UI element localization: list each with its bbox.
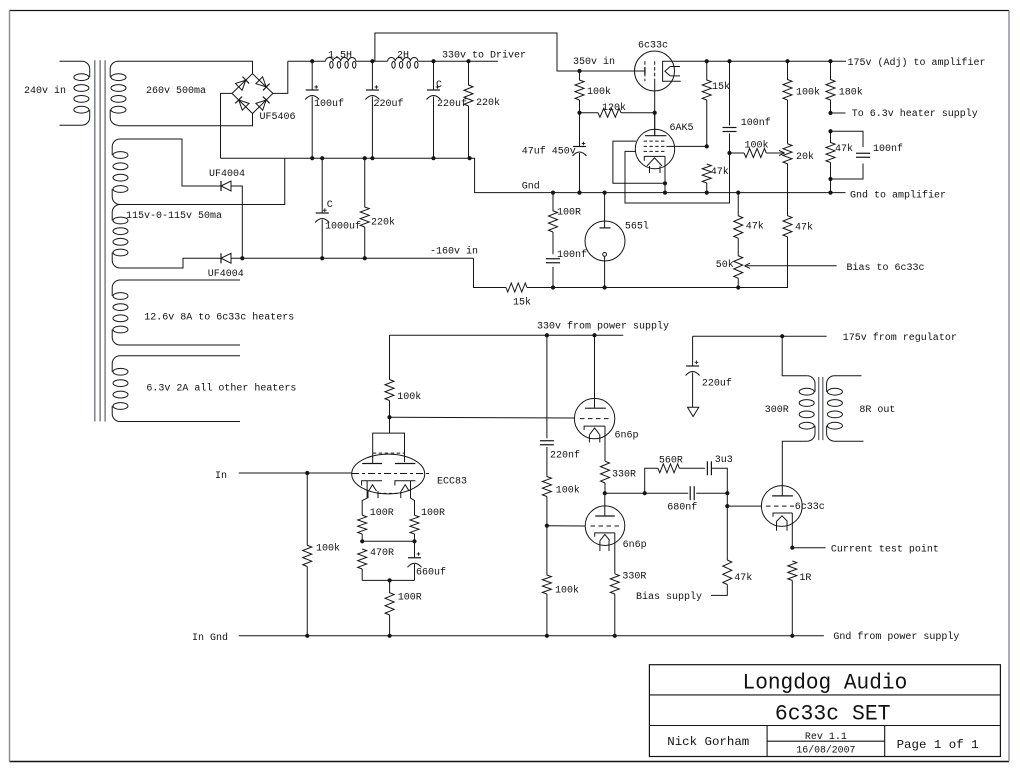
capacitor C6 100nf [729,61,731,125]
svg-text:Longdog Audio: Longdog Audio [743,671,908,696]
svg-text:350v in: 350v in [573,56,615,68]
wire V3 cathode down [664,156,666,192]
resistor R16 47k bias right [783,164,792,237]
tube V4 grid dash-dot [352,473,431,475]
svg-text:100k: 100k [556,485,580,497]
tube V3 grid3 dashed [644,150,667,152]
svg-text:-160v in: -160v in [430,245,478,257]
junction ECC83 plate node [387,415,391,419]
wire 260v top to bridge [118,61,253,73]
svg-text:220k: 220k [476,97,500,109]
junction 47k-100nf top [828,129,832,133]
wire current test point [792,547,825,549]
svg-text:680nf: 680nf [667,502,697,514]
wire ground rail 0v [221,157,470,159]
tube V2 cathode circle [603,253,607,257]
wire cathode network bottom [362,579,414,581]
transformer T2 output core [818,377,820,440]
junction 330v 220nf line [545,333,549,337]
wire V2 cathode to -160 rail [604,256,606,287]
transformer T1 core [94,60,96,421]
svg-text:Bias to 6c33c: Bias to 6c33c [847,262,925,274]
capacitor C13 220uf decoupling [692,336,694,366]
resistor R6 15k [702,61,711,100]
tube V5 plate bar [585,407,606,409]
wire -160 to 47k corner [738,237,787,288]
junction rail 15k [705,59,709,63]
transformer T1 primary winding 240v [82,61,90,77]
junction 560R branch [643,491,647,495]
wire ground rail jog to Gnd [470,158,846,192]
bridge diode D5 lower-left [235,97,249,111]
svg-text:UF4004: UF4004 [208,269,244,280]
svg-text:300R: 300R [765,405,789,416]
capacitor C12 3u3 [706,461,708,475]
junction gnd 220uf [370,156,374,160]
junction B+ 100uf [310,59,314,63]
svg-text:2H: 2H [397,51,409,62]
tube V1 6c33c regulator envelope [635,51,675,91]
junction gnd 100R [551,191,555,195]
wire V6 plate from node [604,493,606,516]
svg-text:8R out: 8R out [859,405,895,416]
junction grid feed [725,504,729,508]
resistor R3 15k [506,283,527,292]
resistor R24 100k lower [542,526,551,594]
svg-text:In: In [215,471,227,482]
wire 6.3v bottom stub [120,421,240,423]
wire cathode2 to 100R [411,481,415,515]
wire 115v center tap to ground rail [120,158,285,204]
tube V4 ECC83 envelope [352,454,425,494]
tube V3 grid1 dashed [644,140,667,142]
tube V1 grid2 dashed [654,61,656,81]
svg-text:C: C [436,80,442,91]
svg-text:100uf: 100uf [314,98,344,110]
svg-text:6.3v 2A all other heaters: 6.3v 2A all other heaters [146,383,296,395]
tube V4 cathode right [395,481,416,486]
junction 47k bottom [828,177,832,181]
svg-text:15k: 15k [712,81,730,93]
wire 260v bottom to bridge AC2 [118,114,253,126]
junction gnd 220k bleeder [363,156,367,160]
wire 100k to 20k wiper arrow [766,152,782,154]
svg-text:3u3: 3u3 [715,455,733,466]
tube V6 cathode [595,533,615,537]
svg-text:100R: 100R [421,508,445,519]
junction -160 1000uf [320,256,324,260]
wire bias supply entry [711,585,727,596]
transformer T1 secondary 6.3v winding [112,356,120,372]
junction gnd 180k chain [828,191,832,195]
transformer T2 secondary 8R [827,376,835,392]
wire OPT secondary top stub [834,375,861,377]
svg-text:Current test point: Current test point [831,543,939,555]
resistor R18 100k grid [303,473,312,567]
svg-text:330v to Driver: 330v to Driver [442,50,526,62]
capacitor C9 660uf [414,541,416,557]
bridge diode D6 lower-right [256,97,270,111]
svg-text:100nf: 100nf [557,249,587,261]
resistor R8 100k [744,149,766,158]
capacitor C10 220nf [540,440,554,442]
wire 560R branch [645,468,658,493]
junction gnd 1R [790,634,794,638]
wire OPT secondary bottom stub [834,440,863,442]
wire 50k wiper to bias out [747,265,837,267]
junction rail 100k [785,59,789,63]
wire V5 plate from 330v rail [594,335,596,408]
svg-text:6c33c: 6c33c [795,502,825,513]
tube V3 grid2 dashed [644,145,667,147]
resistor R4 100k [575,71,584,100]
svg-text:Gnd from power supply: Gnd from power supply [833,631,959,643]
wire bridge positive to B+ rail [273,61,288,93]
resistor R19 100R left [358,515,367,534]
svg-text:1.5H: 1.5H [328,51,352,62]
svg-text:660uf: 660uf [416,567,446,579]
diode D1 UF4004 upper [220,181,222,191]
resistor R2 220k [360,158,369,227]
resistor R29 1R [788,561,797,581]
svg-text:330R: 330R [612,470,636,481]
svg-text:120k: 120k [602,102,626,114]
tube V4 cathode left [362,481,383,486]
capacitor C3 220uf (C) [433,61,435,90]
junction 100R-660uf [412,539,416,543]
junction 100k-120k [577,111,581,115]
tube V6 6n6p lower envelope [585,506,625,546]
tube V4 heater right [401,485,409,491]
svg-text:220nf: 220nf [550,450,580,462]
junction -160 100nf [551,285,555,289]
resistor R14 47k bias upper [734,193,743,239]
junction 6.3v heater tap [828,111,832,115]
wire V5 cathode down [604,426,606,461]
svg-text:Page 1 of 1: Page 1 of 1 [897,738,979,752]
capacitor C11 680nf [688,486,696,500]
bridge diode D3 upper-left [235,77,249,91]
wire to lower 6n6p grid [547,525,585,527]
svg-text:50k: 50k [716,259,734,271]
tube V5 6n6p upper envelope [574,398,614,438]
junction 175v OPT [780,334,784,338]
transformer T2 primary 300R [807,376,815,392]
wire cathode1 to 100R [362,481,367,515]
inductor L2 2H [388,58,418,62]
resistor R20 100R right [410,515,419,534]
junction gnd 330R [613,634,617,638]
svg-text:180k: 180k [839,87,863,99]
tube V1 grid bar [644,67,646,74]
capacitor C2 220uf [371,61,373,90]
wire In Gnd rail [239,635,824,637]
wire ECC83 plate to 6n6p grid [390,416,575,419]
transformer T1 secondary 115v upper winding [112,139,120,155]
junction 330v 6n6p plate [592,333,596,337]
svg-text:175v (Adj) to amplifier: 175v (Adj) to amplifier [848,57,986,69]
svg-text:47k: 47k [795,221,813,233]
svg-text:Gnd to amplifier: Gnd to amplifier [850,190,946,202]
svg-text:6AK5: 6AK5 [670,123,694,134]
junction 100nf-100k [727,151,731,155]
resistor R12 47k [826,131,835,162]
wire cathode resistor junction [362,540,414,542]
junction 330R-6n6p [603,491,607,495]
svg-text:100nf: 100nf [873,143,903,155]
wire OPT primary top [782,336,807,376]
resistor R9 100k [783,61,792,100]
resistor R22 100R [385,580,394,615]
junction gnd 100R [388,634,392,638]
tube V6 grid dashed [591,525,621,527]
junction 470R-100R [388,578,392,582]
potentiometer R15 50k [734,238,743,278]
wire 330v from power supply rail [390,334,624,336]
wire 47k to gnd rail [830,179,832,193]
junction -160 diodes [240,256,244,260]
resistor R26 560R [658,464,679,473]
junction 15k-47k g2 [705,144,709,148]
wire bridge negative to ground rail [221,93,233,158]
tube V6 heater [600,534,610,540]
wire OPT primary bottom to plate [782,441,807,496]
svg-text:Gnd: Gnd [522,181,540,193]
junction 100R-470R [360,539,364,543]
wire primary bottom [60,124,82,126]
wire to 6.3v heater supply stub [831,112,846,114]
svg-text:100nf: 100nf [741,117,771,129]
svg-text:260v 500ma: 260v 500ma [146,86,206,97]
tube V1 plate bracket [663,61,681,81]
svg-text:47k: 47k [711,166,729,178]
junction rail 180k [828,59,832,63]
svg-text:115v-0-115v 50ma: 115v-0-115v 50ma [126,211,222,222]
svg-text:565l: 565l [625,220,649,232]
tube V3 plate [645,135,666,137]
tube V7 plate bar [772,495,793,497]
junction gnd 100uf [310,156,314,160]
svg-text:470R: 470R [370,548,394,559]
title block box [649,665,1000,757]
tube V4 anode box dashed [373,452,405,454]
svg-text:47k: 47k [835,143,853,155]
wire D1 anode to -160 node [231,186,242,258]
tube V3 6AK5 envelope [635,129,674,168]
svg-text:12.6v 8A to 6c33c heaters: 12.6v 8A to 6c33c heaters [144,312,294,324]
svg-text:1R: 1R [799,573,811,584]
svg-text:220uf: 220uf [437,98,467,110]
junction gnd C220uf [431,156,435,160]
junction gnd 1000uf [320,156,324,160]
wire 350v feeder [375,33,645,71]
svg-text:100k: 100k [397,391,421,403]
svg-text:100k: 100k [316,542,340,554]
potentiometer R10 20k [783,144,792,164]
wire V3 g2 to 15k-47k node [666,145,706,147]
svg-text:560R: 560R [659,456,683,467]
svg-text:220uf: 220uf [374,98,404,110]
tube V3 heater [647,158,662,166]
resistor R25 330R upper [601,461,610,483]
junction gnd 100k [545,634,549,638]
svg-text:100k: 100k [745,140,769,152]
junction 680nf-3u3 [725,491,729,495]
tube V4 heater left [369,485,377,491]
wire grid network to 6c33c [727,493,761,506]
wire interstage node [605,492,728,494]
wire 6.3v top stub [120,355,240,357]
junction L1-L2 node [370,59,374,63]
svg-text:330v from power supply: 330v from power supply [537,320,669,332]
svg-text:C: C [327,200,333,211]
tube V4 heater dashed link [378,492,401,494]
svg-text:1000uf: 1000uf [325,221,361,233]
tube V7 6c33c output envelope [761,486,802,527]
tube V4 anode bars [362,463,382,465]
wire 175v from regulator [693,335,827,337]
junction -160 50k [736,285,740,289]
junction In 100k [305,471,309,475]
svg-text:16/08/2007: 16/08/2007 [796,745,855,757]
wire 12.6v top stub [120,279,240,281]
junction gnd 5651 [603,191,607,195]
tube V5 grid dashed [580,418,610,420]
svg-text:100R: 100R [557,208,581,219]
bridge diode D4 upper-right [256,77,270,91]
tube V5 cathode [584,426,605,430]
junction current test point [790,546,794,550]
resistor R13 100R [549,193,558,232]
wire -160 rail step down [474,258,507,287]
svg-text:220k: 220k [371,217,395,229]
svg-text:100k: 100k [796,87,820,99]
svg-text:To 6.3v heater supply: To 6.3v heater supply [852,108,978,120]
svg-text:ECC83: ECC83 [437,477,467,488]
svg-text:20k: 20k [796,151,814,163]
resistor R7 47k [702,164,711,183]
wire -160v in rail [231,257,474,259]
capacitor C8 100nf [552,232,554,254]
page border frame [10,10,1010,12]
wire V3 g3 to reference node [625,151,730,203]
transformer T1 secondary 260v winding [110,61,118,77]
junction gnd 6AK5 cathode [663,191,667,195]
svg-text:6c33c: 6c33c [638,41,668,52]
svg-text:Nick Gorham: Nick Gorham [667,735,749,749]
wire V6 cathode down [614,533,616,574]
junction -160 5651 [603,285,607,289]
svg-text:100R: 100R [398,593,422,604]
svg-text:100k: 100k [555,585,579,597]
wire 115v bottom to diode D2 [120,258,221,268]
junction rail 100nf [727,59,731,63]
svg-text:220uf: 220uf [702,378,732,390]
tube V2 anode [604,193,606,228]
resistor R23 100k [542,447,551,497]
wire V3 g1 to ground [613,141,665,183]
tube V7 grid dashed [766,505,794,507]
svg-text:In Gnd: In Gnd [192,632,228,644]
ground arrow [688,407,699,416]
svg-text:100k: 100k [587,86,611,98]
svg-text:100R: 100R [370,508,394,519]
tube V2 5651 envelope [585,221,625,261]
tube V7 heater [777,516,788,522]
resistor R1 220k bleeder [464,61,473,106]
svg-text:UF4004: UF4004 [209,169,245,180]
svg-text:175v from regulator: 175v from regulator [843,332,957,344]
diode D2 UF4004 lower [220,253,222,263]
svg-text:Rev 1.1: Rev 1.1 [805,732,847,743]
tube V1 grid dashed [644,61,646,81]
svg-text:330R: 330R [622,572,646,583]
wire primary top [60,60,82,62]
svg-text:6n6p: 6n6p [615,431,639,442]
junction gnd 220k [468,156,472,160]
capacitor C5 47uf 450v [579,113,581,147]
transformer T1 secondary 12.6v winding [112,280,120,296]
junction gnd 100k in [305,634,309,638]
svg-text:47k: 47k [746,220,764,232]
svg-text:15k: 15k [513,297,531,309]
svg-text:6n6p: 6n6p [623,540,647,551]
inductor L1 1.5H [326,58,356,62]
wire 3u3 to junction [711,468,727,493]
svg-text:47k: 47k [734,572,752,584]
resistor R5 120k [598,108,621,117]
tube V3 cathode [644,156,665,160]
svg-text:6c33c SET: 6c33c SET [775,702,891,727]
transformer T1 secondary 115v lower winding [112,205,120,221]
junction 220k node [466,59,470,63]
resistor R27 330R lower [610,574,619,594]
junction -160 220k [363,256,367,260]
tube V6 plate bar [595,515,615,517]
wire regulator output rail 175v [674,60,846,62]
capacitor C4 1000uf [321,158,323,213]
resistor R11 180k [826,61,835,100]
resistor R21 470R [358,549,367,569]
junction C 220uf node [431,59,435,63]
wire V1 cathode to 6AK5 [654,81,656,136]
wire In input [239,472,352,474]
wire V7 cathode down [791,513,793,548]
bridge rectifier UF5406 diamond [232,74,273,114]
svg-text:47uf 450v: 47uf 450v [522,145,576,157]
wire B+ rail 330v [288,60,326,62]
tube V4 anode box [373,417,405,463]
wire 115v top to diode D1 [120,139,221,186]
junction gnd 47uf [577,191,581,195]
svg-text:240v in: 240v in [24,85,66,97]
tube V7 cathode [773,513,792,517]
junction 120k 6AK5 plate [653,111,657,115]
wire 220nf branch from 330v rail [546,335,548,438]
junction gnd 47k lower [736,191,740,195]
capacitor C1 100uf [311,61,313,90]
wire 12.6v bottom stub [120,344,240,346]
junction gnd 47k upper [705,191,709,195]
resistor R17 100k plate [385,335,394,400]
capacitor C7 100nf parallel [831,131,864,147]
tube V5 heater [590,428,600,434]
wire 350v junction [577,69,581,73]
junction 100k mid [545,524,549,528]
svg-text:UF5406: UF5406 [260,112,296,123]
junction g1-cathode [663,181,667,185]
resistor R28 47k bias feed [723,506,732,584]
